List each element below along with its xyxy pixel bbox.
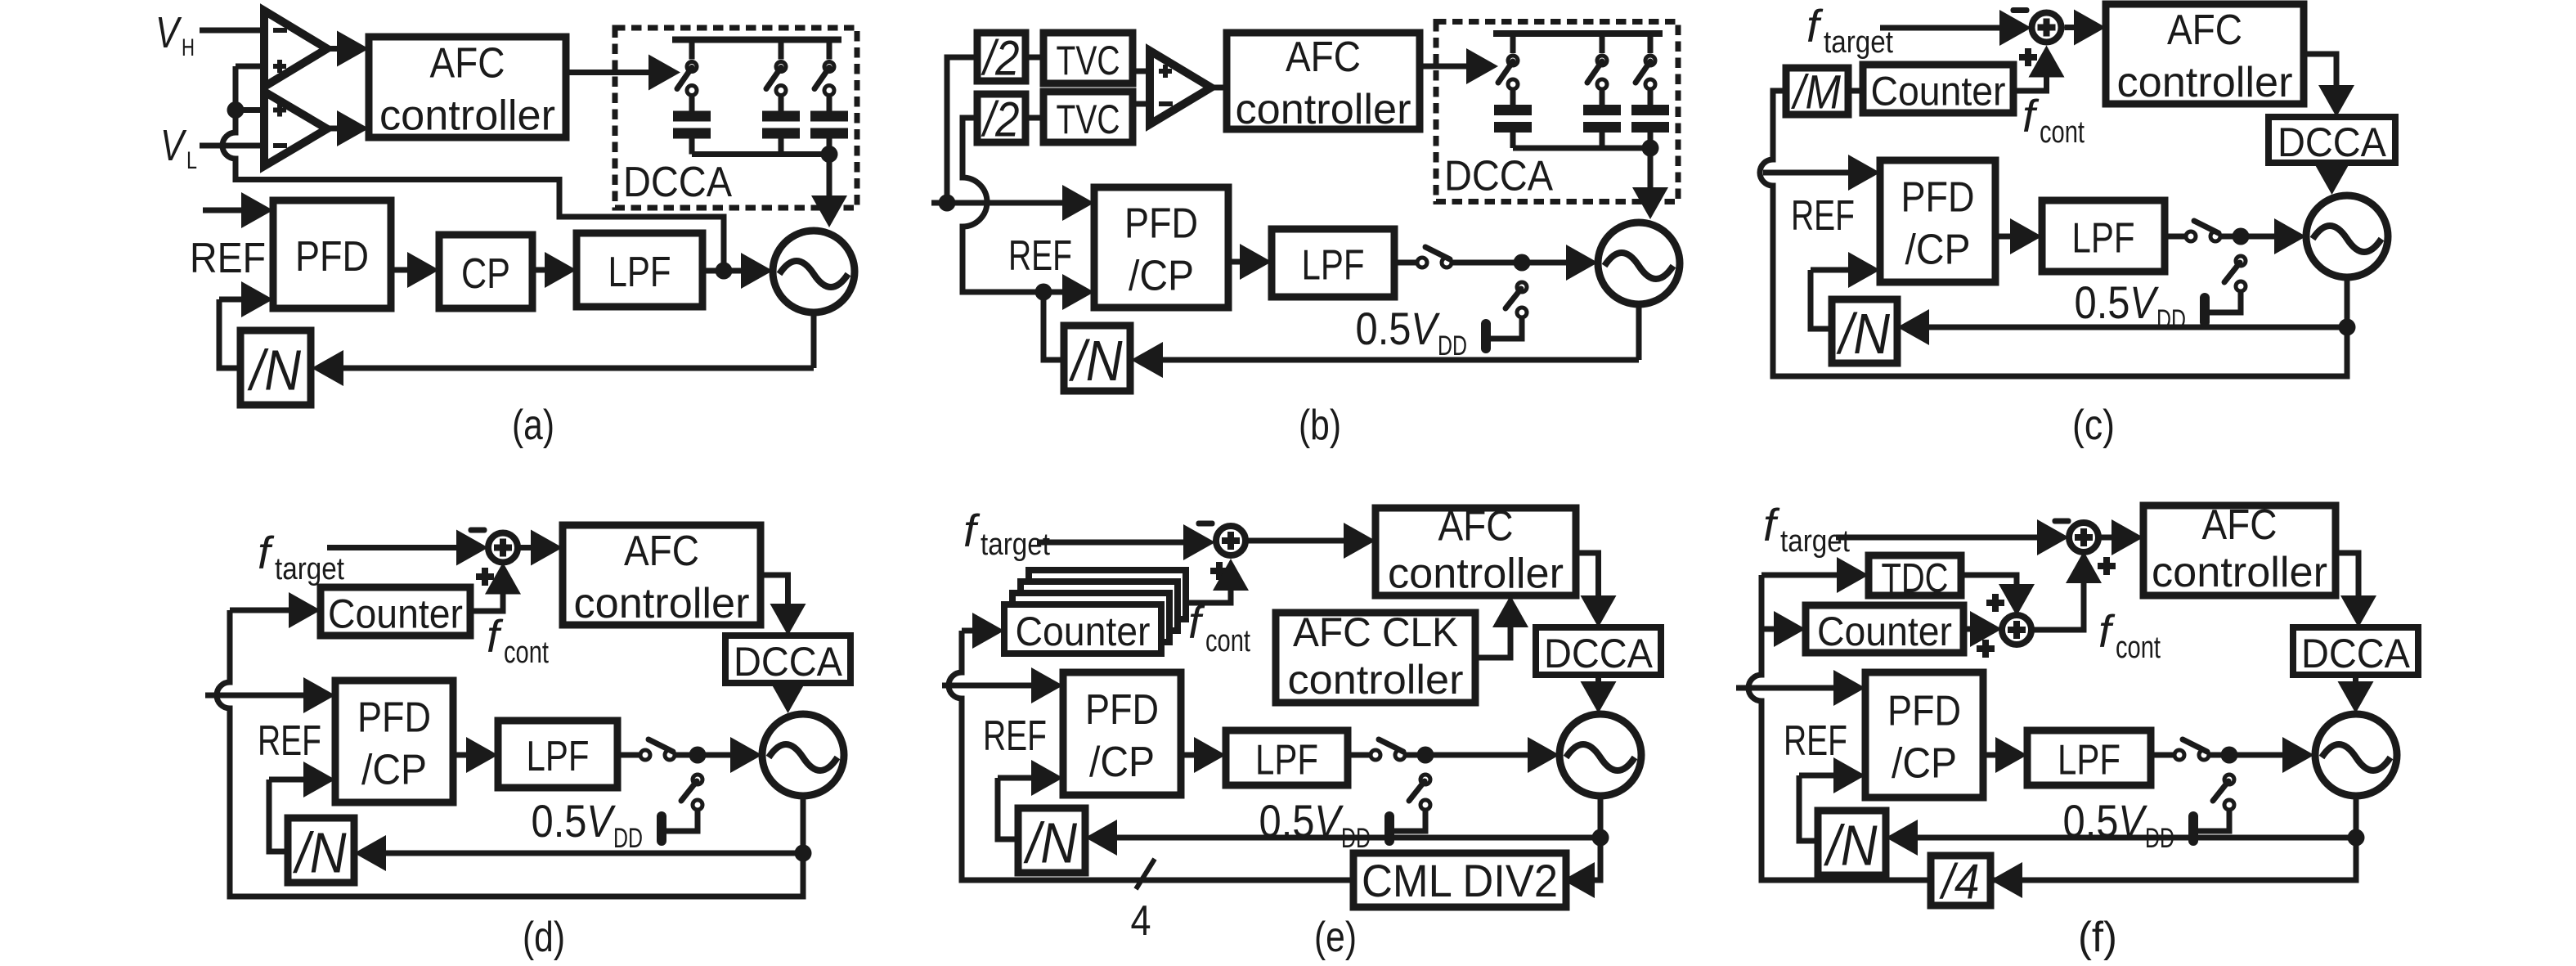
svg-text:CML DIV2: CML DIV2 [1362, 855, 1558, 906]
svg-text:/CP: /CP [1905, 227, 1971, 274]
svg-text:V: V [155, 8, 182, 57]
svg-text:cont: cont [2116, 631, 2161, 665]
svg-text:TDC: TDC [1882, 555, 1949, 601]
svg-text:/CP: /CP [361, 747, 427, 794]
svg-text:controller: controller [379, 92, 555, 140]
svg-text:Counter: Counter [1871, 69, 2006, 115]
svg-text:Counter: Counter [1016, 609, 1151, 654]
svg-text:DD: DD [2145, 823, 2174, 854]
svg-text:/CP: /CP [1089, 739, 1155, 786]
svg-text:/2: /2 [981, 31, 1020, 86]
svg-text:0.5: 0.5 [2063, 795, 2119, 847]
svg-text:/2: /2 [981, 92, 1020, 147]
svg-text:/CP: /CP [1129, 253, 1194, 300]
svg-text:/4: /4 [1939, 855, 1980, 910]
svg-text:target: target [275, 552, 344, 586]
svg-text:REF: REF [258, 717, 321, 765]
svg-text:/N: /N [247, 339, 301, 402]
svg-text:V: V [1314, 795, 1344, 847]
svg-text:controller: controller [2117, 59, 2293, 106]
svg-text:DD: DD [1438, 330, 1467, 362]
svg-text:V: V [160, 121, 187, 170]
svg-text:V: V [586, 795, 616, 847]
svg-text:PFD: PFD [357, 694, 431, 742]
svg-text:REF: REF [1008, 232, 1072, 280]
svg-text:AFC CLK: AFC CLK [1293, 609, 1458, 655]
svg-text:(c): (c) [2072, 402, 2115, 449]
svg-text:0.5: 0.5 [532, 795, 587, 847]
svg-text:CP: CP [461, 250, 510, 298]
svg-text:PFD: PFD [1901, 174, 1975, 222]
svg-text:PFD: PFD [295, 233, 369, 281]
svg-text:AFC: AFC [2202, 501, 2278, 549]
svg-text:LPF: LPF [608, 249, 671, 296]
svg-text:TVC: TVC [1057, 97, 1120, 142]
svg-text:/N: /N [1836, 302, 1890, 366]
svg-text:Counter: Counter [328, 591, 463, 637]
svg-text:(d): (d) [523, 914, 565, 961]
svg-text:AFC: AFC [1286, 34, 1361, 81]
svg-text:DCCA: DCCA [734, 639, 843, 685]
svg-text:LPF: LPF [1302, 242, 1365, 290]
svg-text:0.5: 0.5 [1356, 303, 1411, 354]
svg-text:target: target [1780, 524, 1850, 559]
svg-text:controller: controller [574, 580, 750, 627]
svg-text:controller: controller [2152, 549, 2327, 596]
svg-text:LPF: LPF [1255, 737, 1318, 784]
svg-text:DD: DD [2156, 304, 2186, 335]
svg-text:cont: cont [2040, 115, 2085, 150]
svg-text:V: V [1411, 303, 1440, 354]
svg-text:REF: REF [190, 235, 266, 282]
svg-text:V: V [2118, 795, 2147, 847]
svg-text:AFC: AFC [1438, 503, 1514, 550]
svg-text:LPF: LPF [2072, 215, 2135, 263]
svg-text:DD: DD [1341, 823, 1371, 854]
svg-text:AFC: AFC [2167, 7, 2242, 54]
svg-text:controller: controller [1236, 86, 1411, 133]
svg-text:/M: /M [1790, 66, 1841, 119]
svg-text:DD: DD [613, 823, 643, 854]
svg-text:REF: REF [1791, 192, 1855, 240]
svg-text:H: H [182, 34, 195, 61]
svg-text:DCCA: DCCA [2301, 631, 2411, 676]
svg-text:L: L [186, 147, 197, 174]
svg-text:DCCA: DCCA [1444, 153, 1553, 200]
svg-text:/N: /N [1069, 329, 1123, 393]
svg-text:0.5: 0.5 [2075, 276, 2130, 328]
svg-text:(f): (f) [2078, 914, 2117, 961]
svg-text:AFC: AFC [430, 40, 505, 88]
svg-text:LPF: LPF [2058, 737, 2120, 784]
svg-text:V: V [2129, 276, 2159, 328]
svg-text:4: 4 [1131, 897, 1151, 945]
svg-text:REF: REF [983, 712, 1047, 760]
svg-text:PFD: PFD [1085, 686, 1159, 734]
svg-text:Counter: Counter [1817, 609, 1952, 654]
svg-text:/CP: /CP [1892, 740, 1957, 788]
svg-text:/N: /N [1824, 814, 1878, 878]
svg-text:TVC: TVC [1057, 38, 1120, 83]
svg-text:(b): (b) [1299, 402, 1341, 449]
svg-text:(e): (e) [1314, 914, 1357, 961]
svg-text:AFC: AFC [624, 528, 699, 575]
svg-text:cont: cont [504, 636, 549, 670]
svg-text:DCCA: DCCA [2278, 119, 2387, 165]
svg-text:/N: /N [293, 821, 347, 885]
svg-text:cont: cont [1205, 624, 1250, 658]
svg-text:controller: controller [1288, 657, 1464, 703]
svg-text:DCCA: DCCA [1544, 631, 1654, 676]
svg-text:controller: controller [1388, 550, 1564, 598]
svg-text:LPF: LPF [527, 733, 590, 780]
svg-text:PFD: PFD [1887, 688, 1961, 735]
svg-text:/N: /N [1023, 811, 1077, 875]
svg-text:(a): (a) [512, 402, 554, 449]
svg-text:PFD: PFD [1124, 200, 1198, 248]
svg-text:0.5: 0.5 [1259, 795, 1315, 847]
svg-text:DCCA: DCCA [623, 159, 732, 206]
svg-text:REF: REF [1784, 717, 1847, 765]
